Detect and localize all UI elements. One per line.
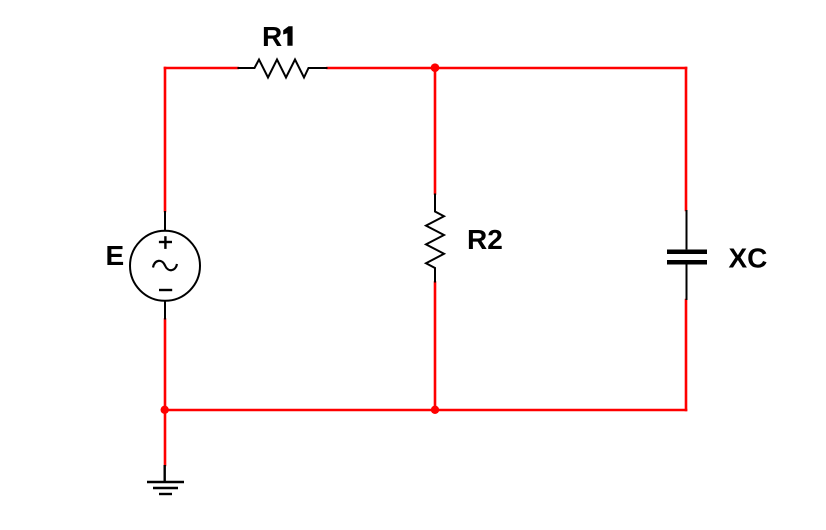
svg-text:R2: R2 bbox=[467, 224, 503, 255]
svg-text:R: R bbox=[262, 21, 282, 52]
svg-text:XC: XC bbox=[729, 243, 768, 274]
svg-text:E: E bbox=[106, 240, 125, 271]
